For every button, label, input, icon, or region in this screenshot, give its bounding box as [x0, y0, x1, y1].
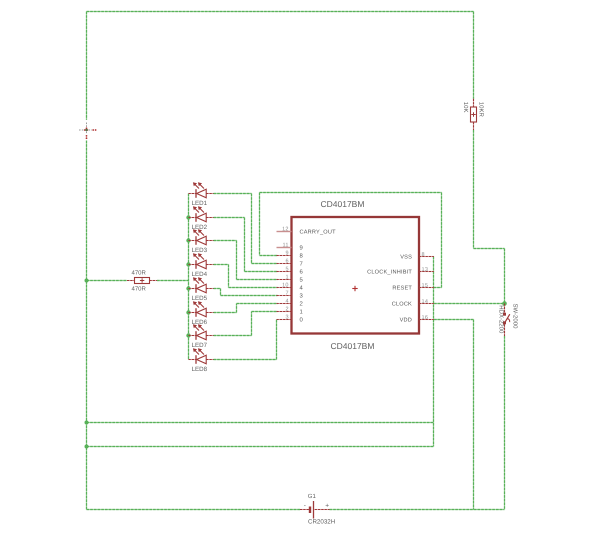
svg-text:1: 1	[285, 275, 288, 281]
svg-text:5: 5	[285, 267, 288, 273]
svg-text:LED3: LED3	[192, 247, 208, 254]
svg-text:G1: G1	[308, 493, 317, 500]
svg-text:HDX-2200: HDX-2200	[497, 305, 504, 334]
svg-text:VSS: VSS	[400, 255, 412, 261]
svg-text:11: 11	[282, 243, 288, 249]
svg-text:4: 4	[285, 299, 288, 305]
svg-text:4: 4	[300, 285, 304, 292]
svg-text:8: 8	[422, 252, 425, 258]
svg-text:7: 7	[300, 261, 303, 268]
svg-text:10K: 10K	[462, 102, 469, 113]
svg-text:7: 7	[285, 291, 288, 297]
svg-text:-: -	[304, 502, 306, 509]
svg-text:3: 3	[300, 293, 304, 300]
svg-text:LED7: LED7	[192, 342, 208, 349]
svg-text:2: 2	[285, 307, 288, 313]
svg-text:CR2032H: CR2032H	[308, 518, 335, 525]
svg-text:12: 12	[282, 227, 289, 233]
svg-text:VDD: VDD	[400, 318, 412, 324]
svg-text:15: 15	[422, 283, 429, 289]
svg-text:+: +	[325, 503, 329, 510]
svg-text:LED5: LED5	[192, 295, 208, 302]
svg-text:10KR: 10KR	[477, 102, 484, 118]
svg-text:9: 9	[300, 245, 303, 252]
svg-text:0: 0	[300, 317, 304, 324]
svg-text:470R: 470R	[132, 270, 147, 277]
svg-text:LED8: LED8	[192, 366, 208, 373]
svg-text:470R: 470R	[132, 285, 147, 292]
svg-text:RESET: RESET	[392, 286, 412, 292]
svg-text:5: 5	[300, 277, 304, 284]
svg-text:8: 8	[300, 253, 304, 260]
svg-text:CLOCK: CLOCK	[392, 302, 412, 308]
svg-text:2: 2	[300, 301, 303, 308]
svg-text:CD4017BM: CD4017BM	[331, 341, 375, 351]
svg-text:3: 3	[285, 315, 288, 321]
svg-text:16: 16	[422, 315, 429, 321]
svg-text:CD4017BM: CD4017BM	[321, 199, 365, 209]
svg-text:6: 6	[285, 259, 288, 265]
svg-text:13: 13	[422, 267, 429, 273]
svg-text:LED4: LED4	[192, 271, 208, 278]
svg-text:CLOCK_INHIBIT: CLOCK_INHIBIT	[367, 270, 412, 276]
svg-text:9: 9	[285, 251, 288, 257]
svg-text:10: 10	[282, 283, 289, 289]
svg-text:14: 14	[422, 299, 429, 305]
svg-text:SW-2000: SW-2000	[512, 304, 519, 330]
svg-text:1: 1	[300, 309, 303, 316]
svg-text:6: 6	[300, 269, 304, 276]
svg-text:LED1: LED1	[192, 200, 208, 207]
svg-text:CARRY_OUT: CARRY_OUT	[300, 230, 337, 236]
